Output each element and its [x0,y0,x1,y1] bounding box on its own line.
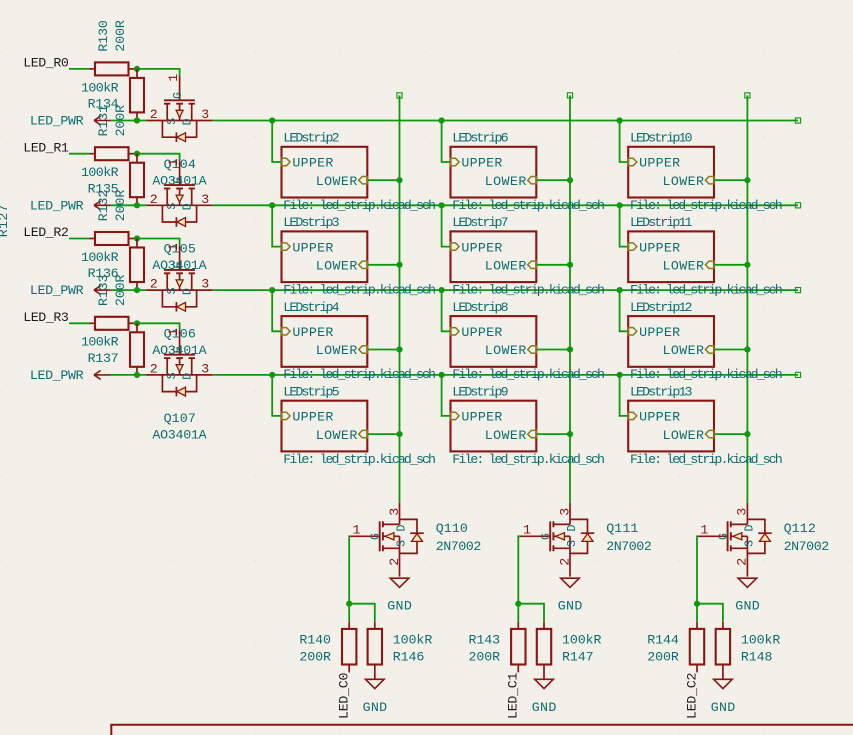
junction LED_PWR row 3 to sheet column 3 [617,372,623,378]
svg-text:100kR: 100kR [562,633,602,648]
sheet pin UPPER of LEDstrip9 [451,412,460,419]
svg-text:2N7002: 2N7002 [606,539,652,554]
svg-text:LED_PWR: LED_PWR [30,114,84,129]
junction LOWER LEDstrip13 on bus [744,431,750,437]
svg-text:File: led_strip.kicad_sch: File: led_strip.kicad_sch [283,283,436,298]
svg-text:GND: GND [558,599,583,614]
svg-text:File: led_strip.kicad_sch: File: led_strip.kicad_sch [452,452,605,467]
svg-text:2: 2 [735,558,750,566]
sheet pin UPPER of LEDstrip7 [451,243,460,250]
resistor R143 200R (series to LED_C1) [517,622,519,629]
junction LED_PWR row 1 to sheet column 3 [617,202,623,208]
svg-text:2: 2 [150,192,158,207]
svg-text:GND: GND [363,700,388,715]
junction LOWER LEDstrip10 on bus [744,177,750,183]
sheet pin UPPER of LEDstrip5 [282,412,291,419]
svg-text:LEDstrip6: LEDstrip6 [452,131,508,146]
svg-text:Q107: Q107 [164,411,196,426]
junction pulldown to LED_PWR rail [134,117,140,123]
svg-text:D: D [182,203,195,210]
svg-text:LED_R0: LED_R0 [23,56,69,71]
svg-text:LEDstrip4: LEDstrip4 [283,300,339,315]
svg-text:100kR: 100kR [393,633,433,648]
svg-text:LEDstrip13: LEDstrip13 [630,385,693,400]
svg-text:GND: GND [711,700,736,715]
junction LED_PWR row 3 to sheet column 2 [439,372,445,378]
resistor R135 100kR (vertical pulldown) [136,154,138,163]
svg-text:R143: R143 [469,633,501,648]
svg-text:LOWER: LOWER [485,259,527,274]
svg-text:LOWER: LOWER [316,174,358,189]
svg-text:100kR: 100kR [81,335,119,350]
resistor R130 200R (horizontal) [90,68,96,70]
resistor R134 100kR (vertical pulldown) [136,69,138,78]
svg-text:LEDstrip2: LEDstrip2 [283,131,339,146]
transistor Q105 AO3401A (P-MOSFET) [146,160,213,226]
svg-text:S: S [396,540,409,547]
wire LOWER of LEDstrip5 to bus [368,433,400,435]
svg-text:R137: R137 [88,351,119,366]
svg-text:200R: 200R [469,649,501,664]
svg-text:G: G [172,346,185,353]
sheet pin LOWER of LEDstrip2 [359,177,368,184]
junction LED_PWR row 2 to sheet column 1 [269,287,275,293]
transistor Q110 2N7002 (N-MOSFET) [350,503,424,577]
svg-text:3: 3 [201,277,209,292]
resistor R132 200R (horizontal) [90,238,96,240]
svg-text:G: G [172,92,185,99]
svg-text:G: G [172,262,185,269]
svg-text:LED_C2: LED_C2 [684,672,699,719]
svg-text:1: 1 [523,523,531,538]
resistor R144 200R (series to LED_C2) [696,622,698,629]
svg-text:File: led_strip.kicad_sch: File: led_strip.kicad_sch [283,367,436,382]
svg-text:3: 3 [387,508,402,516]
svg-text:LEDstrip8: LEDstrip8 [452,300,508,315]
sheet pin UPPER of LEDstrip3 [282,243,291,250]
svg-text:LED_R3: LED_R3 [23,310,69,325]
wire column bus 1 (LED column 0) [399,95,401,503]
svg-text:File: led_strip.kicad_sch: File: led_strip.kicad_sch [630,283,783,298]
svg-text:File: led_strip.kicad_sch: File: led_strip.kicad_sch [452,198,605,213]
sheet pin LOWER of LEDstrip11 [705,261,714,268]
wire LED_PWR rail (row 1) left segment [111,204,147,206]
ground symbol at Q111 source [561,578,580,587]
wire UPPER of LEDstrip4 [272,290,281,331]
sheet pin UPPER of LEDstrip8 [451,328,460,335]
junction LED_PWR row 0 to sheet column 2 [439,117,445,123]
ground symbol at R146 [366,679,385,688]
junction LOWER LEDstrip2 on bus [396,177,402,183]
svg-text:100kR: 100kR [81,80,119,95]
sheet pin LOWER of LEDstrip5 [359,430,368,437]
svg-text:LOWER: LOWER [316,259,358,274]
svg-text:2: 2 [150,361,158,376]
svg-text:D: D [182,118,195,125]
wire LOWER of LEDstrip12 to bus [715,349,748,351]
junction gate network LED_C2 [694,601,700,607]
resistor R147 100kR (gate pulldown) [543,622,545,629]
svg-text:200R: 200R [113,190,128,222]
junction LED_PWR row 1 to sheet column 1 [269,202,275,208]
wire R132 to gate of Q106 [137,239,180,246]
svg-text:100kR: 100kR [81,250,119,265]
ground symbol at R147 [535,679,554,688]
resistor R131 200R (horizontal) [90,153,96,155]
wire LED_PWR rail (row 3) right segment [213,374,798,376]
junction LOWER LEDstrip3 on bus [396,262,402,268]
sheet pin LOWER of LEDstrip4 [359,346,368,353]
svg-text:1: 1 [353,523,361,538]
wire end marker bus 1 [397,93,402,98]
sheet pin UPPER of LEDstrip13 [628,412,637,419]
svg-text:AO3401A: AO3401A [152,428,206,443]
wire junction to R14x top pins [517,604,519,622]
svg-text:LEDstrip11: LEDstrip11 [630,215,693,230]
sheet pin LOWER of LEDstrip9 [528,430,537,437]
junction LED_PWR row 0 to sheet column 3 [617,117,623,123]
svg-text:2: 2 [150,107,158,122]
svg-text:R132: R132 [96,190,111,222]
sheet pin LOWER of LEDstrip7 [528,261,537,268]
svg-text:File: led_strip.kicad_sch: File: led_strip.kicad_sch [630,367,783,382]
wire UPPER of LEDstrip10 [620,121,628,163]
svg-text:G: G [718,533,731,540]
wire LOWER of LEDstrip7 to bus [537,264,570,266]
wire LED_R0 to resistor R130 [69,68,90,70]
svg-text:S: S [166,118,179,125]
svg-text:100kR: 100kR [81,165,119,180]
ground symbol at Q110 source [390,578,409,587]
wire LOWER of LEDstrip3 to bus [368,264,400,266]
sheet pin LOWER of LEDstrip3 [359,261,368,268]
transistor Q104 AO3401A (P-MOSFET) [146,76,213,142]
svg-text:2: 2 [387,558,402,566]
wire LOWER of LEDstrip11 to bus [715,264,748,266]
svg-text:LOWER: LOWER [316,428,358,443]
svg-text:LED_R1: LED_R1 [23,140,69,155]
resistor R133 200R (horizontal) [90,322,96,324]
sheet pin LOWER of LEDstrip8 [528,346,537,353]
wire LOWER of LEDstrip8 to bus [537,349,570,351]
junction gate network LED_C0 [346,601,352,607]
svg-text:LOWER: LOWER [663,259,705,274]
svg-text:2: 2 [150,277,158,292]
svg-text:1: 1 [166,74,181,82]
junction LOWER LEDstrip9 on bus [567,431,573,437]
wire end marker row 1 [795,203,800,208]
svg-text:UPPER: UPPER [461,325,502,340]
resistor R148 100kR (gate pulldown) [722,622,724,629]
junction LED_PWR row 0 to sheet column 1 [269,117,275,123]
ground symbol at Q112 source [738,578,757,587]
wire UPPER of LEDstrip11 [620,205,628,246]
svg-text:Q111: Q111 [606,521,638,536]
transistor Q111 2N7002 (N-MOSFET) [521,503,595,577]
junction LOWER LEDstrip7 on bus [567,262,573,268]
svg-text:File: led_strip.kicad_sch: File: led_strip.kicad_sch [630,452,783,467]
wire gate of Q112 down to resistors [696,536,699,603]
svg-text:LEDstrip5: LEDstrip5 [283,385,339,400]
sheet pin UPPER of LEDstrip11 [628,243,637,250]
wire UPPER of LEDstrip2 [272,121,281,163]
svg-text:UPPER: UPPER [461,240,502,255]
svg-text:3: 3 [201,192,209,207]
wire LED_PWR rail (row 3) left segment [111,374,147,376]
node junction at R130 output [134,66,140,72]
wire junction to R14x top pins [348,604,350,622]
svg-text:LED_C0: LED_C0 [337,672,352,719]
node junction at R131 output [134,151,140,157]
wire LED_PWR rail (row 0) right segment [213,120,798,122]
svg-text:UPPER: UPPER [639,325,680,340]
transistor Q112 2N7002 (N-MOSFET) [698,503,772,577]
svg-text:LEDstrip9: LEDstrip9 [452,385,508,400]
svg-text:File: led_strip.kicad_sch: File: led_strip.kicad_sch [630,198,783,213]
svg-text:D: D [182,288,195,295]
svg-text:LEDstrip12: LEDstrip12 [630,300,693,315]
sheet pin LOWER of LEDstrip10 [705,177,714,184]
svg-text:G: G [370,533,383,540]
resistor R136 100kR (vertical pulldown) [136,239,138,248]
wire UPPER of LEDstrip6 [442,121,450,163]
wire R131 to gate of Q105 [137,154,180,161]
svg-text:100kR: 100kR [741,633,781,648]
svg-text:R127: R127 [0,204,11,237]
svg-text:GND: GND [387,599,412,614]
wire gate of Q111 down to resistors [518,536,520,603]
resistor R140 200R (series to LED_C0) [348,622,350,629]
wire LED_PWR rail (row 1) right segment [213,204,798,206]
wire LED_PWR rail (row 0) left segment [111,120,147,122]
svg-text:LED_PWR: LED_PWR [30,283,84,298]
svg-text:File: led_strip.kicad_sch: File: led_strip.kicad_sch [283,452,436,467]
wire junction to R14x top pins [696,604,698,622]
svg-text:UPPER: UPPER [292,410,333,425]
wire UPPER of LEDstrip5 [272,375,281,416]
svg-text:R144: R144 [647,633,679,648]
wire LED_PWR rail (row 2) right segment [213,289,798,291]
sheet pin LOWER of LEDstrip13 [705,430,714,437]
svg-text:200R: 200R [113,274,128,306]
junction LOWER LEDstrip6 on bus [567,177,573,183]
svg-text:3: 3 [201,107,209,122]
svg-text:Q112: Q112 [784,521,816,536]
svg-text:R147: R147 [562,649,594,664]
wire R130 to gate of Q104 [137,69,180,76]
svg-text:S: S [566,540,579,547]
svg-text:GND: GND [735,599,760,614]
junction pulldown to LED_PWR rail [134,287,140,293]
svg-text:S: S [166,372,179,379]
junction LED_PWR row 3 to sheet column 1 [269,372,275,378]
sheet pin UPPER of LEDstrip10 [628,158,637,165]
wire end marker row 2 [795,288,800,293]
wire end marker row 3 [795,372,800,377]
svg-text:UPPER: UPPER [292,325,333,340]
junction LOWER LEDstrip11 on bus [744,262,750,268]
wire UPPER of LEDstrip9 [442,375,450,416]
svg-text:LOWER: LOWER [485,343,527,358]
svg-text:UPPER: UPPER [461,410,502,425]
svg-text:LOWER: LOWER [663,343,705,358]
wire LOWER of LEDstrip4 to bus [368,349,400,351]
svg-text:LOWER: LOWER [663,428,705,443]
svg-text:LED_PWR: LED_PWR [30,198,84,213]
junction LED_PWR row 1 to sheet column 2 [439,202,445,208]
svg-text:R133: R133 [96,274,111,306]
junction LOWER LEDstrip4 on bus [396,346,402,352]
svg-text:LEDstrip10: LEDstrip10 [630,131,693,146]
wire UPPER of LEDstrip12 [620,290,628,331]
svg-text:LOWER: LOWER [485,428,527,443]
svg-text:D: D [566,525,579,532]
svg-text:LED_R2: LED_R2 [23,225,69,240]
svg-text:3: 3 [201,361,209,376]
wire UPPER of LEDstrip7 [442,205,450,246]
svg-text:200R: 200R [299,649,331,664]
wire LOWER of LEDstrip6 to bus [537,179,570,181]
wire end marker bus 2 [567,93,572,98]
svg-text:S: S [166,203,179,210]
resistor R146 100kR (gate pulldown) [374,622,376,629]
sheet pin UPPER of LEDstrip12 [628,328,637,335]
svg-text:UPPER: UPPER [639,240,680,255]
svg-text:R131: R131 [96,105,111,137]
svg-text:R140: R140 [299,633,331,648]
svg-text:File: led_strip.kicad_sch: File: led_strip.kicad_sch [452,283,605,298]
wire R133 to gate of Q107 [137,323,180,330]
junction pulldown to LED_PWR rail [134,202,140,208]
svg-text:LOWER: LOWER [316,343,358,358]
wire end marker row 0 [795,118,800,123]
junction pulldown to LED_PWR rail [134,372,140,378]
ground symbol at R148 [714,679,733,688]
svg-text:UPPER: UPPER [461,156,502,171]
svg-text:GND: GND [532,700,557,715]
wire UPPER of LEDstrip8 [442,290,450,331]
svg-text:R146: R146 [393,649,425,664]
svg-text:D: D [396,525,409,532]
svg-text:Q110: Q110 [436,521,468,536]
svg-text:200R: 200R [113,105,128,137]
node junction at R133 output [134,320,140,326]
svg-text:1: 1 [700,523,708,538]
svg-text:S: S [744,540,757,547]
svg-text:LED_C1: LED_C1 [506,672,521,719]
wire UPPER of LEDstrip3 [272,205,281,246]
svg-text:LEDstrip3: LEDstrip3 [283,215,339,230]
junction gate network LED_C1 [515,601,521,607]
svg-text:UPPER: UPPER [292,240,333,255]
wire end marker bus 3 [745,93,750,98]
wire LED_PWR rail (row 2) left segment [111,289,147,291]
transistor Q106 AO3401A (P-MOSFET) [146,245,213,311]
sheet pin LOWER of LEDstrip12 [705,346,714,353]
junction LOWER LEDstrip8 on bus [567,346,573,352]
svg-text:3: 3 [557,508,572,516]
svg-text:R148: R148 [741,649,773,664]
svg-text:UPPER: UPPER [639,410,680,425]
junction LED_PWR row 2 to sheet column 3 [617,287,623,293]
svg-text:1: 1 [166,328,181,336]
wire LED_R3 to resistor R133 [69,322,90,324]
svg-text:200R: 200R [113,20,128,52]
svg-text:UPPER: UPPER [292,156,333,171]
node junction at R132 output [134,235,140,241]
wire column bus 2 (LED column 1) [569,95,571,503]
junction LOWER LEDstrip12 on bus [744,346,750,352]
svg-text:LED_PWR: LED_PWR [30,368,84,383]
wire LOWER of LEDstrip9 to bus [537,433,570,435]
svg-text:G: G [540,533,553,540]
wire LOWER of LEDstrip13 to bus [715,433,748,435]
sheet border (lower sheet outline) [111,725,853,735]
sheet pin UPPER of LEDstrip2 [282,158,291,165]
wire LOWER of LEDstrip10 to bus [715,179,748,181]
wire LED_R1 to resistor R131 [69,153,90,155]
svg-text:1: 1 [166,243,181,251]
svg-text:200R: 200R [647,649,679,664]
junction LED_PWR row 2 to sheet column 2 [439,287,445,293]
svg-text:2N7002: 2N7002 [784,539,830,554]
svg-text:S: S [166,287,179,294]
sheet pin UPPER of LEDstrip6 [451,158,460,165]
svg-text:UPPER: UPPER [639,156,680,171]
resistor R137 100kR (vertical pulldown) [136,323,138,332]
svg-text:D: D [182,373,195,380]
svg-text:1: 1 [166,159,181,167]
wire LOWER of LEDstrip2 to bus [368,179,400,181]
junction LOWER LEDstrip5 on bus [396,431,402,437]
svg-text:File: led_strip.kicad_sch: File: led_strip.kicad_sch [452,367,605,382]
wire LED_R2 to resistor R132 [69,238,90,240]
svg-text:D: D [744,525,757,532]
svg-text:LOWER: LOWER [485,174,527,189]
svg-text:3: 3 [735,508,750,516]
transistor Q107 AO3401A (P-MOSFET) [146,330,213,396]
wire UPPER of LEDstrip13 [620,375,628,416]
svg-text:2: 2 [557,558,572,566]
svg-text:LOWER: LOWER [663,174,705,189]
wire gate of Q110 down to resistors [348,536,351,603]
svg-text:2N7002: 2N7002 [436,539,482,554]
svg-text:LEDstrip7: LEDstrip7 [452,215,508,230]
sheet pin UPPER of LEDstrip4 [282,328,291,335]
svg-text:R130: R130 [96,20,111,52]
svg-text:G: G [172,177,185,184]
svg-text:File: led_strip.kicad_sch: File: led_strip.kicad_sch [283,198,436,213]
wire column bus 3 (LED column 2) [746,95,748,503]
sheet pin LOWER of LEDstrip6 [528,177,537,184]
